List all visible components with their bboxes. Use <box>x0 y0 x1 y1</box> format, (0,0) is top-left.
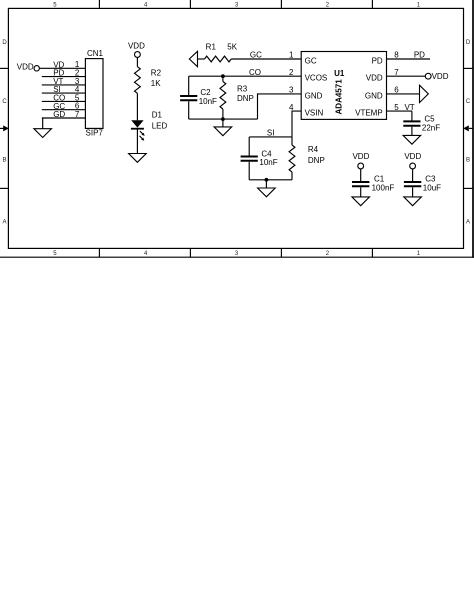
capacitor C4 <box>241 156 258 158</box>
frame center arrow left <box>0 125 9 131</box>
wire U1 pin 4 down <box>292 111 301 137</box>
resistor R2 <box>135 67 141 94</box>
svg-text:6: 6 <box>394 86 399 95</box>
ground under C1 <box>352 197 370 206</box>
wire CN1 pin 4 <box>42 92 86 94</box>
svg-text:2: 2 <box>289 68 294 77</box>
svg-text:8: 8 <box>394 51 399 60</box>
svg-text:VT: VT <box>404 103 414 112</box>
resistor R4 <box>289 137 295 180</box>
wire C2 branch vertical top <box>188 76 190 95</box>
junction node CO/R3 <box>221 74 225 78</box>
wire U1 pin 8 net PD <box>387 58 431 60</box>
diode D1 LED <box>131 120 145 140</box>
wire VDD to C3 <box>412 169 414 181</box>
capacitor C2 <box>180 95 197 97</box>
outer frame bottom line <box>0 256 474 258</box>
svg-text:B: B <box>2 158 6 164</box>
frame tick left y=68.4 <box>0 67 8 69</box>
svg-text:22nF: 22nF <box>422 123 440 132</box>
frame tick bottom x=190.4 <box>189 248 191 257</box>
svg-text:7: 7 <box>394 68 399 77</box>
svg-text:GC: GC <box>305 56 317 65</box>
svg-text:SIP7: SIP7 <box>86 129 104 138</box>
capacitor C3 <box>404 181 421 183</box>
wire C2 bottom <box>188 101 190 119</box>
svg-text:PD: PD <box>414 51 425 60</box>
wire CN1 pin 7 <box>42 117 86 119</box>
wire CN1 pin 2 <box>42 76 86 78</box>
svg-text:R3: R3 <box>237 85 248 94</box>
off-page arrow (R1 left, GC) <box>189 51 197 66</box>
svg-text:GND: GND <box>365 91 383 100</box>
svg-text:GD: GD <box>53 110 65 119</box>
wire net SI <box>249 136 292 138</box>
svg-text:VDD: VDD <box>17 62 34 71</box>
wire bottom rail C2/R3/pin3 <box>189 118 258 120</box>
svg-text:1: 1 <box>289 51 294 60</box>
svg-text:R1: R1 <box>206 42 217 51</box>
svg-text:VTEMP: VTEMP <box>355 109 383 118</box>
svg-text:VDD: VDD <box>366 74 383 83</box>
svg-text:SI: SI <box>267 128 275 137</box>
wire C4 bottom <box>248 162 250 180</box>
wire VDD to C1 <box>360 169 362 181</box>
ground under C4/R4 <box>258 188 276 197</box>
svg-text:ADA4571: ADA4571 <box>335 79 344 115</box>
svg-text:1K: 1K <box>151 79 161 88</box>
svg-text:VCOS: VCOS <box>305 74 328 83</box>
svg-text:C: C <box>2 99 7 105</box>
wire D1 to ground <box>136 129 138 154</box>
wire VT to C5 <box>411 111 413 120</box>
frame tick top x=190.4 <box>189 0 191 8</box>
svg-text:VDD: VDD <box>404 152 421 161</box>
ground under D1 <box>129 154 147 163</box>
outer frame right line <box>472 0 474 258</box>
resistor R1 <box>205 56 232 62</box>
svg-text:A: A <box>466 220 470 226</box>
wire stub to ground <box>222 119 224 127</box>
svg-text:5K: 5K <box>227 43 237 52</box>
frame tick top x=372.4 <box>371 0 373 8</box>
wire CN1 pin 3 <box>42 84 86 86</box>
wire U1 pin 3 to bottom rail <box>258 94 302 119</box>
frame center arrow right <box>463 125 473 131</box>
svg-text:B: B <box>466 158 470 164</box>
svg-text:C: C <box>466 99 471 105</box>
svg-text:VDD: VDD <box>128 42 145 51</box>
svg-text:A: A <box>2 220 6 226</box>
svg-text:D: D <box>466 40 471 46</box>
wire U1 pin 5 net VT <box>387 110 412 112</box>
ground under C5 <box>403 135 421 144</box>
capacitor C1 <box>352 181 369 183</box>
svg-text:10nF: 10nF <box>199 97 217 106</box>
wire U1 pin 7 to VDD <box>387 75 426 77</box>
svg-text:7: 7 <box>75 110 80 119</box>
svg-text:100nF: 100nF <box>372 184 395 193</box>
capacitor C5 <box>403 120 420 122</box>
svg-text:VDD: VDD <box>352 152 369 161</box>
svg-text:C1: C1 <box>374 175 385 184</box>
frame tick bottom x=99.4 <box>98 248 100 257</box>
wire VDD to CN1 pin 1 <box>39 67 85 69</box>
svg-text:DNP: DNP <box>308 156 325 165</box>
resistor R3 <box>220 76 226 119</box>
wire CN1 pin 5 <box>42 100 86 102</box>
frame tick bottom x=372.4 <box>371 248 373 257</box>
connector CN1 body <box>85 59 103 129</box>
wire bottom rail C4/R4 <box>249 179 292 181</box>
svg-text:VSIN: VSIN <box>305 109 324 118</box>
wire C5 to ground <box>411 127 413 136</box>
svg-text:3: 3 <box>289 86 294 95</box>
frame tick right y=188.4 <box>464 187 474 189</box>
svg-text:C2: C2 <box>200 88 211 97</box>
sheet border frame <box>8 8 463 248</box>
svg-text:CN1: CN1 <box>87 49 104 58</box>
svg-text:C3: C3 <box>425 175 436 184</box>
svg-text:GND: GND <box>305 91 323 100</box>
ground under CN1 <box>34 129 52 138</box>
wire VDD to R2 <box>136 57 138 66</box>
wire C3 to ground <box>412 187 414 197</box>
svg-text:CO: CO <box>249 68 261 77</box>
svg-text:C5: C5 <box>424 114 435 123</box>
op-amp U1 ADA4571 body <box>301 52 386 120</box>
wire net CO (U1 pin 2) <box>189 75 302 77</box>
junction node C4/R4 rail <box>265 178 269 182</box>
svg-text:PD: PD <box>372 56 383 65</box>
svg-text:GC: GC <box>250 51 262 60</box>
frame tick top x=281.4 <box>280 0 282 8</box>
wire arrow to R1 <box>198 58 205 60</box>
power port VDD (U1 pin 7) <box>425 73 431 79</box>
wire R1 to U1 pin 1 (net GC) <box>231 58 301 60</box>
wire CN1 pin 6 <box>42 109 86 111</box>
wire stub to ground <box>265 180 267 188</box>
frame tick top x=99.4 <box>98 0 100 8</box>
ground under R3 <box>214 127 232 136</box>
frame tick bottom x=281.4 <box>280 248 282 257</box>
svg-text:10uF: 10uF <box>423 184 441 193</box>
svg-text:R2: R2 <box>151 69 162 78</box>
svg-text:5: 5 <box>394 103 399 112</box>
svg-text:10nF: 10nF <box>259 158 277 167</box>
svg-text:VDD: VDD <box>432 72 449 81</box>
svg-text:4: 4 <box>289 103 294 112</box>
wire U1 pin 6 <box>387 93 420 95</box>
frame tick right y=68.4 <box>464 67 474 69</box>
svg-text:R4: R4 <box>308 145 319 154</box>
svg-text:LED: LED <box>152 122 168 131</box>
frame tick left y=188.4 <box>0 187 8 189</box>
junction node bottom rail <box>221 117 225 121</box>
ground under C3 <box>404 197 422 206</box>
wire C1 to ground <box>360 187 362 197</box>
svg-text:D1: D1 <box>152 110 163 119</box>
svg-text:U1: U1 <box>334 69 345 78</box>
wire C4 top <box>248 137 250 156</box>
svg-text:D: D <box>2 40 7 46</box>
wire CN1 pin 7 to ground <box>42 118 44 129</box>
wire R2 to D1 <box>136 93 138 120</box>
off-page arrow (U1 pin 6 GND) <box>420 85 429 102</box>
svg-text:DNP: DNP <box>237 94 254 103</box>
